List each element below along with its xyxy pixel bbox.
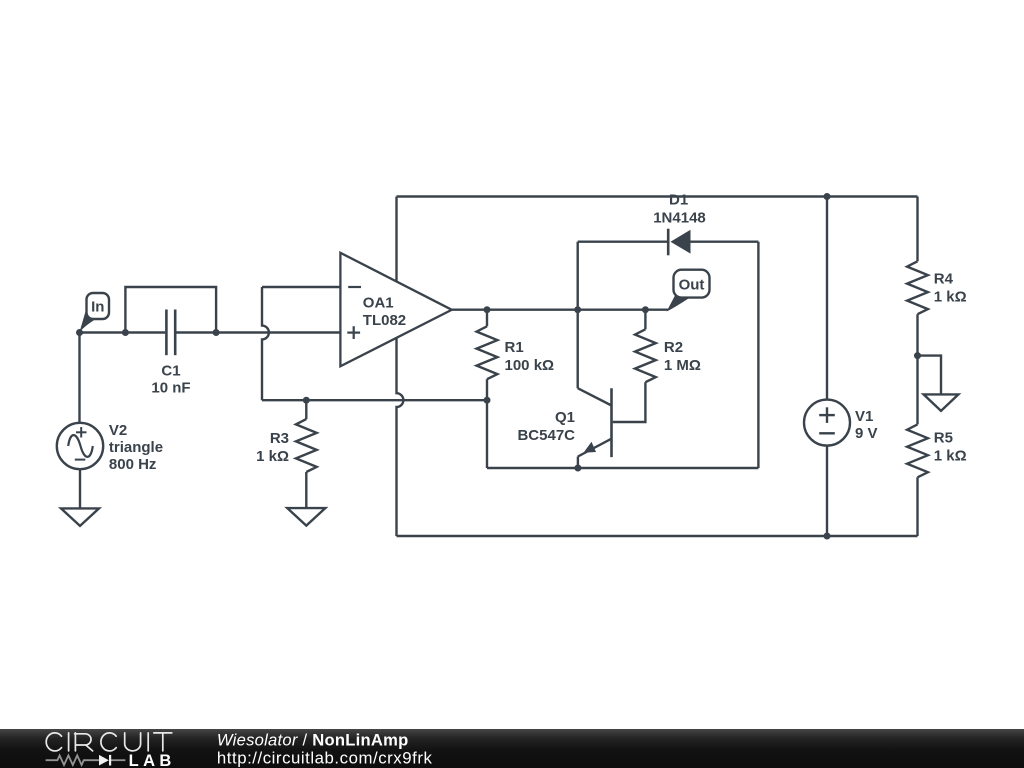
wire diode rail left segment xyxy=(578,240,667,242)
wire R5 bottom lead xyxy=(916,477,918,536)
svg-text:R3: R3 xyxy=(270,430,289,447)
resistor R1 xyxy=(486,310,488,327)
svg-text:R1: R1 xyxy=(505,339,524,356)
svg-text:C1: C1 xyxy=(161,362,180,379)
wire In node to C1 left plate xyxy=(80,331,166,333)
wire divider ground stub xyxy=(918,356,942,395)
svg-text:D1: D1 xyxy=(669,191,688,208)
wire R3 to ground xyxy=(305,472,307,508)
ground V2 xyxy=(61,508,99,526)
logo CIRCUIT letterforms xyxy=(46,733,172,751)
wire outer loop bottom xyxy=(397,535,918,537)
wire C1 right plate to op-amp + input xyxy=(176,331,340,333)
svg-text:V1: V1 xyxy=(855,408,873,425)
wire V1 top lead xyxy=(826,197,828,400)
svg-text:10 nF: 10 nF xyxy=(151,379,190,396)
voltage source V1 xyxy=(804,400,850,446)
node V1 bottom tap xyxy=(824,533,831,540)
wire op-amp output run xyxy=(452,309,668,311)
wire V1 bottom lead xyxy=(826,446,828,536)
resistor R5 xyxy=(907,424,928,477)
svg-text:BC547C: BC547C xyxy=(517,427,575,444)
capacitor C1 xyxy=(165,310,168,356)
flag In xyxy=(79,311,98,333)
logo doodle wire resistor diode xyxy=(46,755,99,765)
svg-text:LAB: LAB xyxy=(129,752,176,768)
node In input junction xyxy=(76,329,83,336)
wire R1 node down to bottom rail xyxy=(486,400,488,468)
resistor R4 xyxy=(907,261,928,314)
wire inner bottom rail xyxy=(487,467,758,469)
wire inner left edge xyxy=(577,242,579,310)
wire outer loop top xyxy=(397,195,918,197)
diode D1 1N4148 xyxy=(667,229,670,256)
wire collector lead xyxy=(577,310,579,389)
node V1 top tap xyxy=(824,193,831,200)
node R1 top xyxy=(484,306,491,313)
svg-text:800 Hz: 800 Hz xyxy=(109,456,157,473)
wire inverting riser (hops + input wire) xyxy=(262,287,269,400)
wire R2 to base xyxy=(613,382,646,422)
wire inverting input stub xyxy=(262,286,340,288)
svg-text:1N4148: 1N4148 xyxy=(653,209,706,226)
op-amp U OA1 TL082 xyxy=(340,253,451,366)
node R4/R5 divider junction xyxy=(914,352,921,359)
svg-text:V2: V2 xyxy=(109,422,127,439)
wire feedback bottom run xyxy=(262,399,487,401)
node C1 right junction xyxy=(213,329,220,336)
wire diode rail right segment xyxy=(691,240,759,242)
svg-text:http://circuitlab.com/crx9frk: http://circuitlab.com/crx9frk xyxy=(217,748,433,767)
svg-text:Wiesolator / NonLinAmp: Wiesolator / NonLinAmp xyxy=(217,731,409,750)
svg-text:1 kΩ: 1 kΩ xyxy=(256,448,289,465)
node emitter junction xyxy=(574,465,581,472)
svg-text:R5: R5 xyxy=(934,430,953,447)
svg-text:1 MΩ: 1 MΩ xyxy=(664,357,701,374)
svg-text:triangle: triangle xyxy=(109,439,163,456)
node R2 top xyxy=(642,306,649,313)
svg-text:TL082: TL082 xyxy=(363,312,406,329)
resistor R2 xyxy=(644,310,646,330)
node C1 left junction xyxy=(122,329,129,336)
ground R3 xyxy=(287,508,325,525)
node R3 tap xyxy=(303,397,310,404)
resistor R3 xyxy=(305,400,307,419)
wire outer loop left edge (hops feedback wire, passes behind op-amp) xyxy=(397,197,404,537)
transistor Q1 BC547C xyxy=(578,388,612,405)
svg-text:R2: R2 xyxy=(664,339,683,356)
svg-text:Q1: Q1 xyxy=(555,409,575,426)
svg-text:9 V: 9 V xyxy=(855,425,878,442)
svg-text:100 kΩ: 100 kΩ xyxy=(505,357,555,374)
wire bypass loop over C1 xyxy=(125,287,216,333)
node collector tap xyxy=(574,306,581,313)
ground divider xyxy=(924,394,959,411)
wire V2 to ground xyxy=(79,469,81,508)
flag Out xyxy=(667,295,692,312)
svg-text:In: In xyxy=(91,299,104,316)
svg-text:1 kΩ: 1 kΩ xyxy=(934,288,967,305)
wire In node to V2 xyxy=(78,333,80,424)
wire right column top lead xyxy=(916,197,918,262)
svg-text:1 kΩ: 1 kΩ xyxy=(934,448,967,465)
wire inner right edge xyxy=(757,242,759,468)
node R1 bottom / feedback junction xyxy=(484,397,491,404)
svg-text:R4: R4 xyxy=(934,270,954,287)
svg-text:Out: Out xyxy=(679,276,705,293)
svg-text:OA1: OA1 xyxy=(363,294,394,311)
wire R4 to R5 xyxy=(916,314,918,424)
voltage source V2 (function generator) xyxy=(57,423,103,469)
